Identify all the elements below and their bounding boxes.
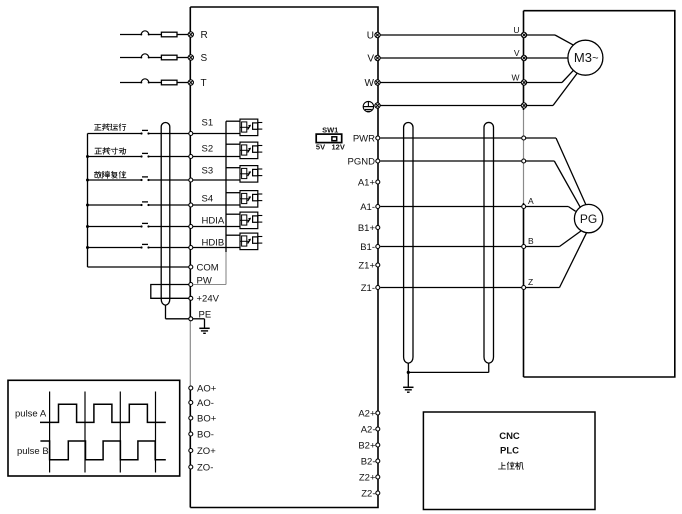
svg-text:PWR: PWR	[353, 133, 375, 144]
svg-text:S: S	[201, 53, 208, 64]
svg-text:V: V	[367, 53, 374, 64]
svg-text:W: W	[365, 78, 375, 89]
svg-text:W: W	[511, 73, 519, 83]
svg-text:S3: S3	[202, 166, 214, 177]
svg-text:BO-: BO-	[197, 429, 214, 440]
svg-text:A2+: A2+	[358, 408, 376, 419]
svg-text:S2: S2	[202, 144, 214, 155]
svg-text:B1+: B1+	[358, 223, 376, 234]
svg-text:HDIA: HDIA	[202, 216, 225, 227]
svg-text:SW1: SW1	[322, 126, 338, 135]
svg-text:5V: 5V	[316, 143, 325, 152]
svg-text:A: A	[528, 196, 534, 206]
svg-text:PG: PG	[580, 212, 597, 226]
svg-text:A1+: A1+	[358, 177, 376, 188]
svg-text:B2+: B2+	[358, 440, 376, 451]
svg-text:CNC: CNC	[499, 431, 520, 442]
svg-text:B: B	[528, 236, 534, 246]
svg-text:ZO+: ZO+	[197, 446, 216, 457]
svg-text:pulse A: pulse A	[15, 409, 47, 420]
svg-text:BO+: BO+	[197, 413, 217, 424]
svg-text:Z1-: Z1-	[361, 283, 375, 294]
svg-text:S4: S4	[202, 194, 214, 205]
svg-text:Z2-: Z2-	[361, 488, 375, 499]
svg-text:ZO-: ZO-	[197, 462, 213, 473]
svg-text:COM: COM	[197, 263, 219, 274]
svg-text:pulse B: pulse B	[17, 446, 49, 457]
svg-text:PGND: PGND	[348, 156, 376, 167]
svg-text:U: U	[367, 30, 374, 41]
svg-text:+24V: +24V	[197, 294, 220, 305]
svg-text:AO-: AO-	[197, 398, 214, 409]
svg-text:T: T	[201, 78, 207, 89]
svg-text:A1-: A1-	[360, 202, 375, 213]
svg-text:B2-: B2-	[361, 456, 376, 467]
svg-text:PLC: PLC	[500, 445, 519, 456]
svg-text:U: U	[513, 25, 519, 35]
svg-text:HDIB: HDIB	[202, 238, 225, 249]
svg-text:V: V	[514, 48, 520, 58]
svg-text:Z2+: Z2+	[359, 472, 376, 483]
svg-text:Z: Z	[528, 277, 533, 287]
svg-text:Z1+: Z1+	[358, 260, 375, 271]
svg-text:B1-: B1-	[360, 242, 375, 253]
svg-text:AO+: AO+	[197, 383, 217, 394]
svg-text:A2-: A2-	[361, 424, 376, 435]
svg-text:S1: S1	[202, 118, 214, 129]
svg-text:M3: M3	[574, 50, 592, 65]
svg-text:12V: 12V	[332, 143, 345, 152]
svg-text:~: ~	[592, 53, 598, 65]
svg-text:R: R	[201, 30, 208, 41]
